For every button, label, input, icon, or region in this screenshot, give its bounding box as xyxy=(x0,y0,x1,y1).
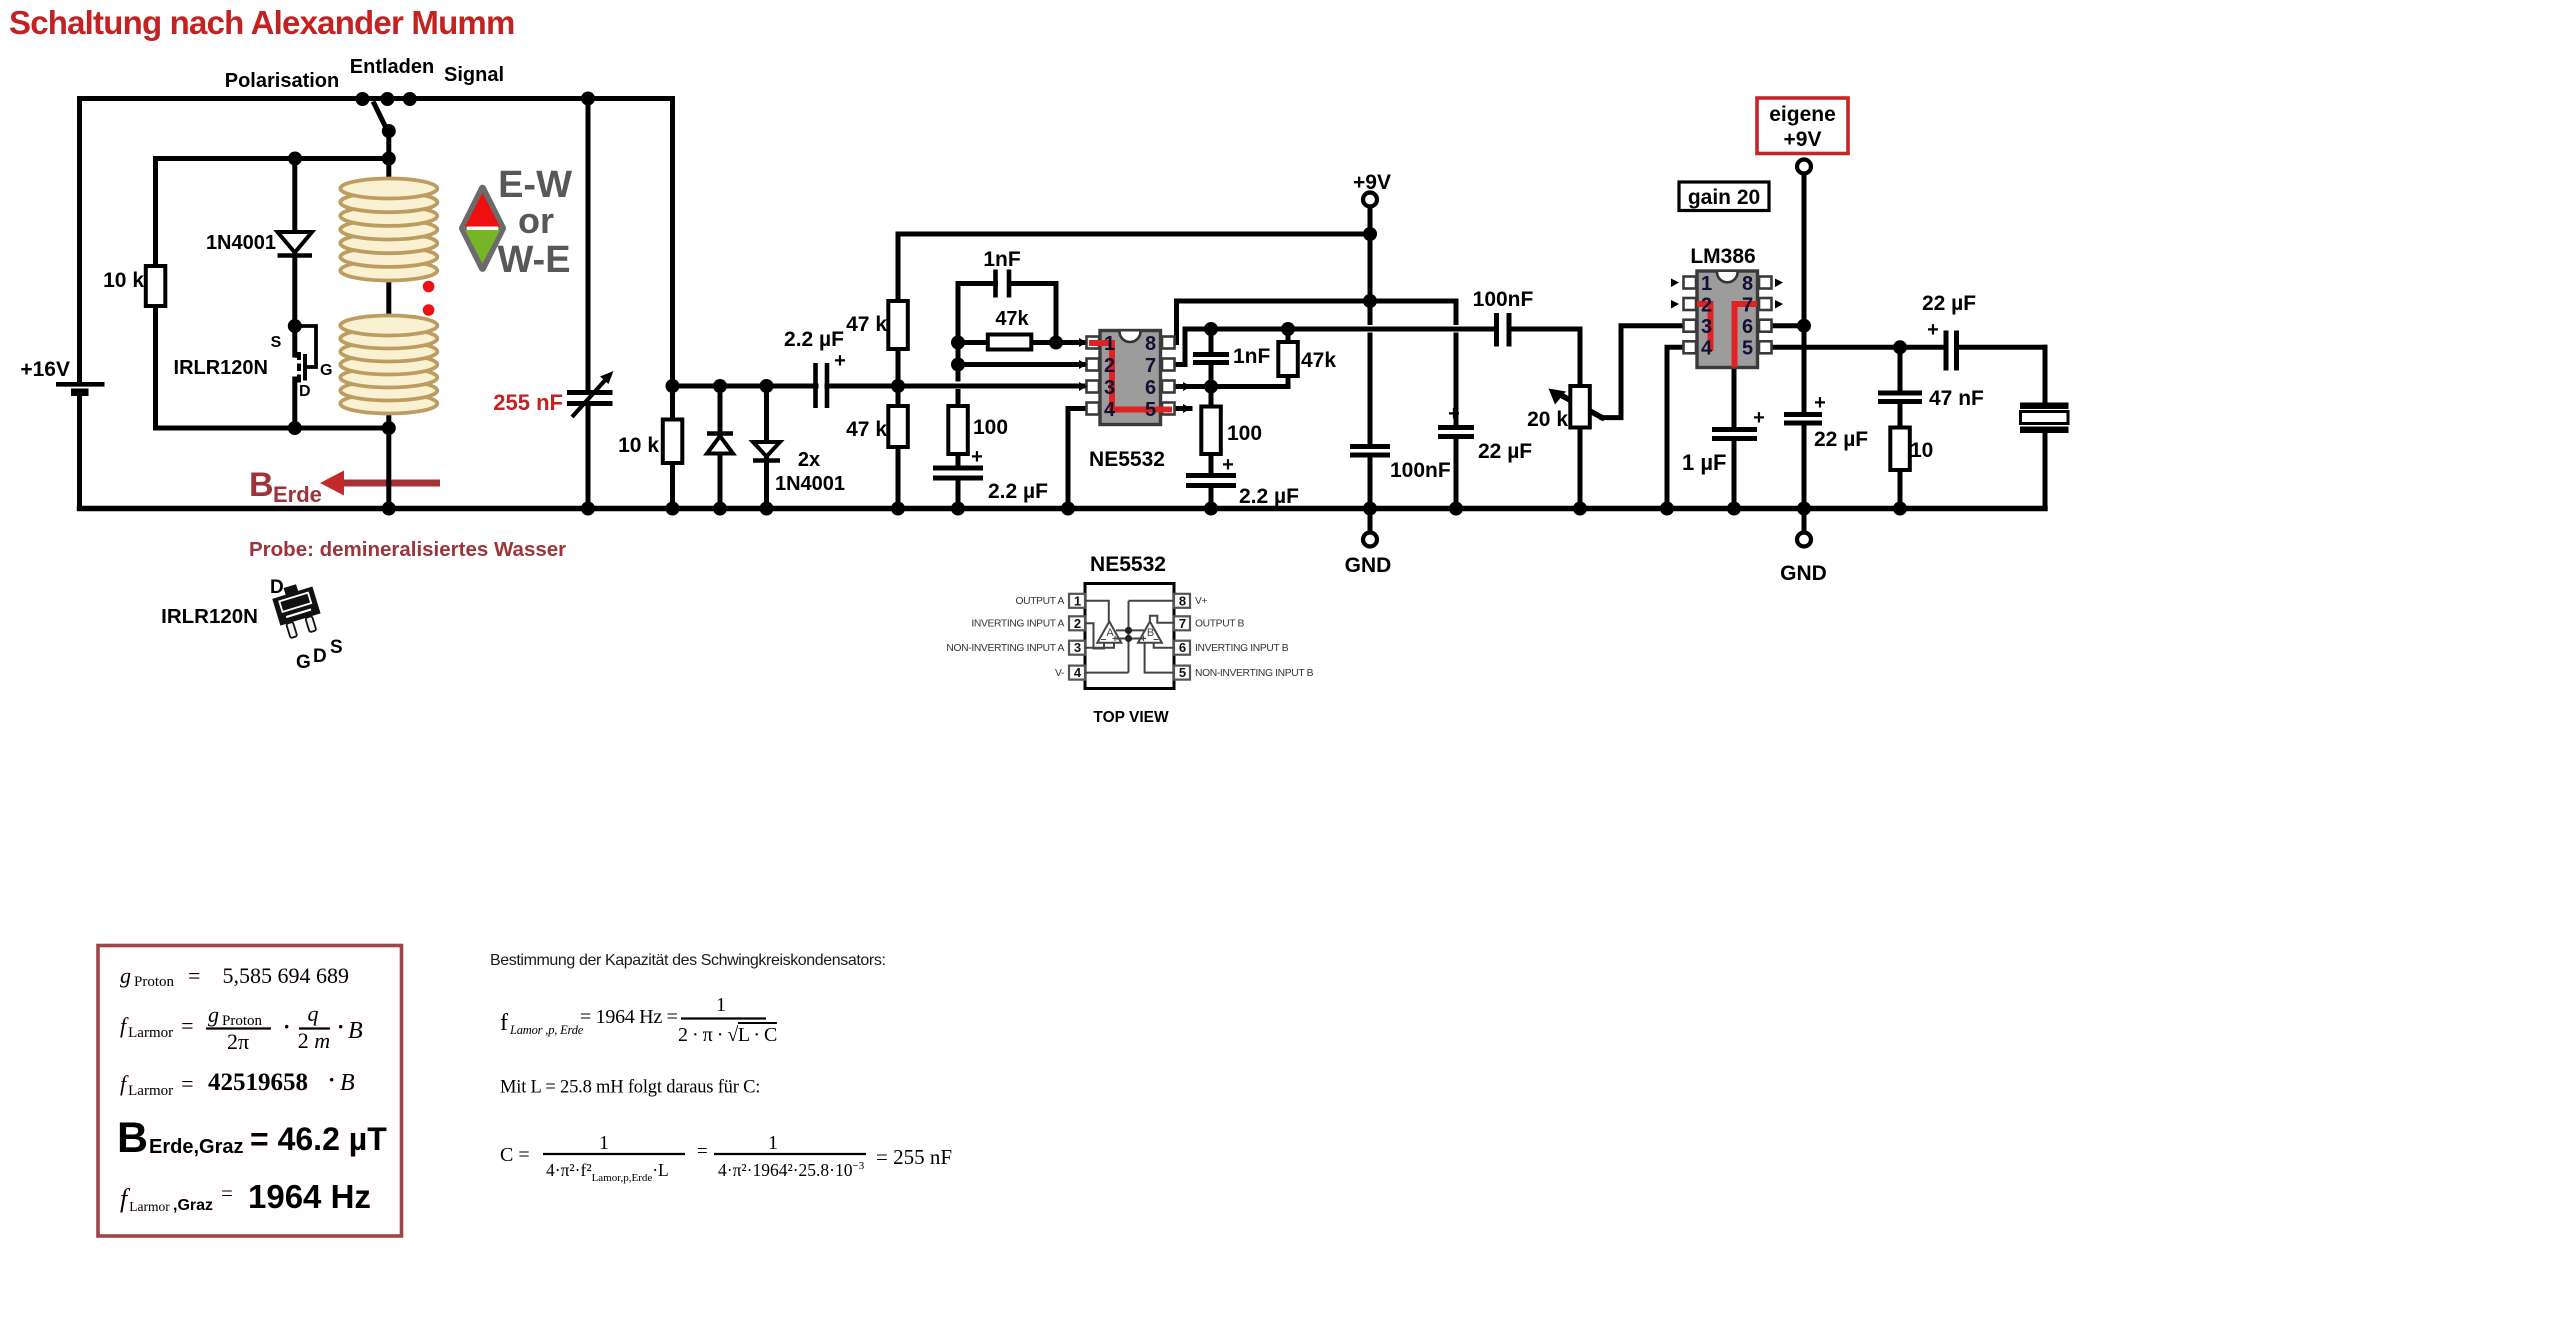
svg-text:–: – xyxy=(1153,634,1159,645)
svg-text:NE5532: NE5532 xyxy=(1090,553,1166,576)
svg-text:+: + xyxy=(834,350,846,372)
svg-text:Mit L = 25.8 mH folgt daraus f: Mit L = 25.8 mH folgt daraus für C: xyxy=(500,1078,760,1098)
svg-text:4: 4 xyxy=(1701,338,1713,360)
svg-text:NON-INVERTING INPUT A: NON-INVERTING INPUT A xyxy=(946,643,1064,654)
svg-text:INVERTING INPUT B: INVERTING INPUT B xyxy=(1195,643,1289,654)
svg-text:–: – xyxy=(1101,634,1107,645)
svg-text:G: G xyxy=(320,362,332,379)
svg-text:2 · π · √L · C: 2 · π · √L · C xyxy=(678,1024,777,1046)
svg-text:Polarisation: Polarisation xyxy=(225,70,339,92)
svg-text:=: = xyxy=(221,1181,233,1205)
svg-text:4·π²·1964²·25.8·10−3: 4·π²·1964²·25.8·10−3 xyxy=(718,1160,865,1180)
svg-text:8: 8 xyxy=(1179,593,1186,608)
svg-text:+: + xyxy=(1927,319,1939,341)
svg-text:B: B xyxy=(340,1070,355,1096)
svg-text:100: 100 xyxy=(1227,422,1262,445)
svg-text:q: q xyxy=(308,1001,319,1026)
svg-text:100nF: 100nF xyxy=(1473,288,1534,311)
svg-text:LM386: LM386 xyxy=(1690,245,1755,268)
svg-text:Signal: Signal xyxy=(444,64,504,86)
svg-text:+: + xyxy=(1814,392,1826,414)
svg-text:= 255 nF: = 255 nF xyxy=(876,1145,952,1169)
svg-text:2x: 2x xyxy=(798,449,820,471)
svg-text:Erde: Erde xyxy=(273,482,322,507)
svg-text:+9V: +9V xyxy=(1784,128,1822,151)
svg-text:2.2 µF: 2.2 µF xyxy=(988,480,1048,503)
svg-text:5: 5 xyxy=(1742,338,1753,360)
svg-text:D: D xyxy=(313,646,327,667)
svg-text:7: 7 xyxy=(1145,355,1156,377)
svg-text:22 µF: 22 µF xyxy=(1922,292,1976,315)
svg-text:B: B xyxy=(249,466,274,504)
svg-text:2: 2 xyxy=(1104,355,1115,377)
svg-text:C =: C = xyxy=(500,1144,530,1166)
svg-text:W-E: W-E xyxy=(497,239,570,281)
svg-text:gain 20: gain 20 xyxy=(1688,186,1760,209)
svg-text:D: D xyxy=(299,383,311,400)
svg-text:4: 4 xyxy=(1074,665,1082,680)
svg-text:Erde,Graz: Erde,Graz xyxy=(149,1136,243,1158)
svg-text:NON-INVERTING INPUT B: NON-INVERTING INPUT B xyxy=(1195,668,1314,679)
svg-text:3: 3 xyxy=(1104,377,1115,399)
svg-text:D: D xyxy=(270,577,284,598)
svg-text:47k: 47k xyxy=(1301,349,1336,372)
svg-text:20 k: 20 k xyxy=(1527,408,1568,431)
svg-text:100: 100 xyxy=(973,416,1008,439)
svg-text:·: · xyxy=(337,1014,344,1039)
svg-text:22 µF: 22 µF xyxy=(1478,440,1532,463)
svg-text:22 µF: 22 µF xyxy=(1814,428,1868,451)
svg-text:,Graz: ,Graz xyxy=(173,1197,213,1214)
svg-text:2 m: 2 m xyxy=(298,1028,330,1053)
svg-text:B: B xyxy=(117,1114,148,1162)
svg-text:B: B xyxy=(348,1018,363,1044)
svg-text:47k: 47k xyxy=(995,308,1029,330)
svg-text:1N4001: 1N4001 xyxy=(206,232,276,254)
svg-text:+: + xyxy=(971,446,983,468)
svg-text:= 1964 Hz =: = 1964 Hz = xyxy=(580,1006,678,1028)
svg-text:Entladen: Entladen xyxy=(350,56,434,78)
svg-text:6: 6 xyxy=(1179,640,1186,655)
svg-text:+: + xyxy=(1112,634,1118,645)
svg-text:7: 7 xyxy=(1179,616,1186,631)
svg-text:V-: V- xyxy=(1055,668,1064,679)
svg-text:255 nF: 255 nF xyxy=(493,390,563,415)
svg-text:·: · xyxy=(283,1014,290,1039)
svg-text:47 nF: 47 nF xyxy=(1929,387,1984,410)
svg-text:7: 7 xyxy=(1742,295,1753,317)
svg-text:S: S xyxy=(271,334,282,351)
svg-text:47 k: 47 k xyxy=(846,418,887,441)
svg-text:OUTPUT A: OUTPUT A xyxy=(1015,596,1064,607)
svg-text:42519658: 42519658 xyxy=(208,1069,308,1096)
svg-text:Schaltung nach Alexander Mumm: Schaltung nach Alexander Mumm xyxy=(9,4,515,41)
svg-text:1nF: 1nF xyxy=(1233,345,1271,368)
svg-text:GND: GND xyxy=(1780,562,1827,585)
svg-text:NE5532: NE5532 xyxy=(1089,448,1165,471)
svg-text:1964 Hz: 1964 Hz xyxy=(248,1178,371,1215)
svg-text:10: 10 xyxy=(1910,439,1933,462)
svg-text:1: 1 xyxy=(1104,333,1115,355)
svg-text:IRLR120N: IRLR120N xyxy=(161,605,258,628)
svg-text:+9V: +9V xyxy=(1353,171,1391,194)
svg-text:2: 2 xyxy=(1701,295,1712,317)
svg-text:1nF: 1nF xyxy=(983,248,1021,271)
svg-text:10 k: 10 k xyxy=(618,434,659,457)
svg-text:eigene: eigene xyxy=(1769,103,1836,126)
svg-text:+16V: +16V xyxy=(20,358,70,381)
svg-text:5: 5 xyxy=(1179,665,1186,680)
svg-text:+: + xyxy=(1448,403,1460,425)
svg-text:Lamor ,p, Erde: Lamor ,p, Erde xyxy=(509,1023,584,1037)
svg-text:+: + xyxy=(1222,454,1234,476)
svg-text:INVERTING INPUT A: INVERTING INPUT A xyxy=(971,619,1064,630)
svg-text:S: S xyxy=(330,637,343,658)
svg-text:G: G xyxy=(296,652,311,673)
svg-text:OUTPUT B: OUTPUT B xyxy=(1195,619,1245,630)
svg-text:47 k: 47 k xyxy=(846,313,887,336)
svg-text:1: 1 xyxy=(716,994,726,1016)
svg-text:1: 1 xyxy=(599,1132,609,1154)
svg-text:3: 3 xyxy=(1701,316,1712,338)
svg-text:6: 6 xyxy=(1742,316,1753,338)
svg-text:f: f xyxy=(500,1010,508,1036)
svg-text:IRLR120N: IRLR120N xyxy=(174,357,268,379)
svg-text:2π: 2π xyxy=(227,1029,249,1054)
svg-text:1N4001: 1N4001 xyxy=(775,473,845,495)
svg-text:8: 8 xyxy=(1742,273,1753,295)
svg-text:Bestimmung der Kapazität des S: Bestimmung der Kapazität des Schwingkrei… xyxy=(490,952,886,969)
svg-text:8: 8 xyxy=(1145,333,1156,355)
svg-text:2: 2 xyxy=(1074,616,1081,631)
svg-text:6: 6 xyxy=(1145,377,1156,399)
svg-text:·: · xyxy=(328,1067,335,1092)
svg-text:TOP VIEW: TOP VIEW xyxy=(1093,709,1169,726)
svg-text:100nF: 100nF xyxy=(1390,459,1451,482)
svg-text:Probe: demineralisiertes Wasse: Probe: demineralisiertes Wasser xyxy=(249,538,566,561)
svg-text:4: 4 xyxy=(1104,399,1116,421)
svg-text:+: + xyxy=(1753,407,1765,429)
svg-text:1 µF: 1 µF xyxy=(1682,450,1726,475)
svg-text:5: 5 xyxy=(1145,399,1156,421)
svg-text:2.2 µF: 2.2 µF xyxy=(1239,485,1299,508)
svg-text:3: 3 xyxy=(1074,640,1081,655)
svg-text:10 k: 10 k xyxy=(103,269,144,292)
svg-text:or: or xyxy=(518,200,554,241)
svg-text:V+: V+ xyxy=(1195,596,1208,607)
svg-text:1: 1 xyxy=(1074,593,1081,608)
svg-text:+: + xyxy=(1141,634,1147,645)
svg-text:1: 1 xyxy=(768,1132,778,1154)
svg-text:=: = xyxy=(697,1141,708,1162)
svg-text:2.2 µF: 2.2 µF xyxy=(784,328,844,351)
svg-text:1: 1 xyxy=(1701,273,1712,295)
svg-text:GND: GND xyxy=(1345,554,1392,577)
svg-text:= 46.2 µT: = 46.2 µT xyxy=(250,1121,387,1157)
